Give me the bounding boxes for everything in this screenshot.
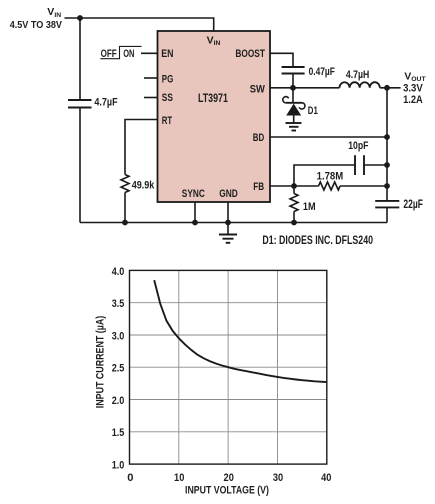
svg-text:SYNC: SYNC: [182, 188, 205, 200]
svg-text:OFF: OFF: [101, 48, 117, 60]
svg-text:INPUT VOLTAGE (V): INPUT VOLTAGE (V): [185, 484, 269, 496]
svg-text:BD: BD: [253, 132, 265, 144]
svg-text:3.0: 3.0: [112, 330, 125, 342]
svg-text:0.47µF: 0.47µF: [309, 66, 335, 78]
svg-text:40: 40: [321, 472, 331, 484]
svg-text:INPUT CURRENT (µA): INPUT CURRENT (µA): [95, 316, 107, 409]
svg-text:SW: SW: [250, 84, 265, 96]
svg-text:20: 20: [224, 472, 234, 484]
svg-text:4.5V TO 38V: 4.5V TO 38V: [10, 19, 62, 31]
svg-text:BOOST: BOOST: [235, 48, 265, 60]
svg-text:49.9k: 49.9k: [132, 180, 155, 192]
svg-text:FB: FB: [253, 181, 264, 193]
svg-text:PG: PG: [162, 74, 174, 86]
svg-text:EN: EN: [161, 48, 173, 60]
svg-text:1.5: 1.5: [112, 427, 125, 439]
svg-text:4.0: 4.0: [112, 266, 125, 278]
svg-text:ON: ON: [123, 48, 134, 60]
svg-text:1.78M: 1.78M: [317, 170, 344, 182]
svg-text:0: 0: [127, 472, 133, 484]
svg-text:2.5: 2.5: [112, 363, 125, 375]
svg-text:1.0: 1.0: [112, 459, 125, 471]
svg-text:RT: RT: [162, 115, 172, 127]
svg-text:30: 30: [273, 472, 283, 484]
svg-text:LT3971: LT3971: [198, 93, 228, 105]
svg-text:1M: 1M: [303, 201, 316, 213]
svg-text:GND: GND: [219, 188, 238, 200]
svg-text:D1: DIODES INC. DFLS240: D1: DIODES INC. DFLS240: [262, 233, 373, 247]
svg-text:22µF: 22µF: [403, 198, 423, 211]
svg-text:3.3V: 3.3V: [403, 83, 423, 95]
svg-text:3.5: 3.5: [112, 298, 125, 310]
svg-text:SS: SS: [162, 92, 173, 104]
svg-text:10: 10: [174, 472, 184, 484]
svg-text:4.7µF: 4.7µF: [94, 97, 117, 109]
svg-text:1.2A: 1.2A: [403, 94, 423, 106]
svg-text:D1: D1: [308, 105, 318, 117]
svg-text:4.7µH: 4.7µH: [346, 69, 369, 81]
svg-text:2.0: 2.0: [112, 395, 125, 407]
svg-text:10pF: 10pF: [348, 140, 368, 152]
